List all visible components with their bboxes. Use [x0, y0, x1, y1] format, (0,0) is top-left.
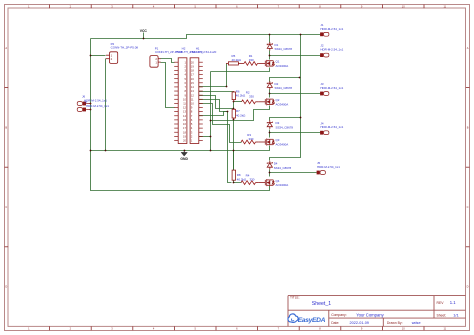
svg-text:TITLE:: TITLE: — [290, 296, 300, 300]
svg-text:40.2kΩ: 40.2kΩ — [236, 113, 246, 117]
svg-text:AO3400A: AO3400A — [276, 143, 289, 147]
svg-text:HDR-M-2.54_1x1: HDR-M-2.54_1x1 — [320, 125, 343, 129]
connector J7 (HDR-M-2.54_1x1) — [77, 108, 82, 112]
svg-text:40.2kΩ: 40.2kΩ — [236, 94, 246, 98]
wire D4 bottom to Q4 drain — [269, 170, 271, 177]
svg-text:D: D — [5, 285, 7, 289]
wire VCC right vertical — [270, 35, 301, 161]
svg-text:R7: R7 — [236, 109, 240, 113]
wire left rail + bottom rail — [91, 39, 270, 191]
connector P2 — [106, 54, 110, 56]
connector H1 (HDR-TH 1x20) — [190, 58, 199, 144]
junction ch2 feed jog — [299, 77, 301, 79]
svg-text:A: A — [5, 46, 7, 50]
junction R7 bottom — [233, 119, 235, 121]
wire P2 pin2 down — [105, 59, 107, 151]
wire to J4 — [270, 132, 321, 134]
svg-text:A: A — [467, 46, 469, 50]
diode D2 — [267, 81, 272, 90]
svg-text:40.2kΩ: 40.2kΩ — [237, 177, 247, 181]
wire ch3 feed jog — [270, 118, 301, 121]
pin numbers H2 (1-20) / H1 (20-1) — [183, 60, 194, 142]
svg-text:2022-01-09: 2022-01-09 — [350, 321, 369, 325]
wire D1 top — [269, 35, 271, 43]
wire P2 pin1 — [91, 55, 106, 57]
diode D4 — [267, 161, 272, 170]
svg-text:HDR-M-2.54_1x1: HDR-M-2.54_1x1 — [320, 86, 343, 90]
junction R6-R2-R7 node — [233, 101, 235, 103]
svg-text:GND: GND — [180, 157, 188, 161]
wire H1 pin1 — [199, 136, 211, 138]
connector J4 (HDR-M-2.54_1x1) — [320, 131, 323, 135]
wire D3 bottom to Q3 drain — [269, 130, 271, 138]
transistor Q3 (NMOS AO3400A) — [259, 139, 275, 146]
svg-text:EasyEDA: EasyEDA — [298, 317, 326, 324]
wire to J5 — [270, 172, 317, 174]
node drain Q1 / J2 — [269, 55, 271, 57]
junction P2 pin2 / mid rail — [105, 150, 107, 152]
resistor R5 body — [226, 62, 228, 64]
svg-text:REV: REV — [437, 301, 445, 305]
wire P1 pin2 to H2 pin1 — [161, 59, 175, 63]
svg-text:AO3400A: AO3400A — [276, 64, 289, 68]
wire mid GND rail — [91, 146, 270, 151]
wire rail to R8 — [233, 151, 235, 171]
junction H1 pin7 / R5 feed — [226, 86, 228, 88]
wire R6-R7 link — [233, 102, 235, 110]
GND symbol — [183, 150, 185, 153]
wire H1 pin14 — [199, 112, 228, 116]
wire R8 bottom to R4 — [234, 181, 242, 183]
pin stubs H2 and H1 — [174, 62, 203, 140]
svg-text:HDR-TH_2.54-1x20: HDR-TH_2.54-1x20 — [190, 50, 216, 54]
transistor Q4 (NMOS AO3400A) — [259, 179, 275, 186]
junction J6 / left rail — [90, 103, 92, 105]
svg-text:wdse: wdse — [412, 321, 421, 325]
wire ch2 feed jog — [270, 78, 300, 82]
node drain Q3 / J4 — [269, 132, 271, 134]
svg-text:B: B — [5, 125, 7, 129]
svg-text:Sheet:: Sheet: — [437, 314, 447, 318]
wire D2 bottom to Q2 drain — [269, 90, 271, 98]
wire R7 bottom to R8 top — [233, 120, 235, 171]
svg-text:Sheet_1: Sheet_1 — [312, 301, 331, 307]
wire VCC rail — [91, 35, 321, 39]
svg-text:40.2kΩ: 40.2kΩ — [232, 58, 242, 62]
svg-text:AO3400A: AO3400A — [276, 183, 289, 187]
title block — [288, 295, 466, 297]
wire H1 pin10 — [199, 100, 228, 112]
wire H1 pin7 — [199, 86, 227, 88]
resistor R6 body — [232, 92, 235, 100]
svg-text:VCC: VCC — [140, 29, 148, 33]
node drain Q4 / J5 — [269, 172, 271, 174]
svg-text:Company:: Company: — [331, 313, 347, 317]
resistor R7 body — [232, 109, 235, 118]
connector J2 (HDR-M-2.54_1x1) — [320, 53, 323, 57]
svg-text:Date:: Date: — [331, 321, 339, 325]
junction R8 bottom / R4 — [233, 182, 235, 184]
connector J6 (HDR-M-2.54_1x1) — [77, 102, 82, 106]
svg-text:B: B — [467, 125, 469, 129]
svg-text:C: C — [5, 205, 7, 209]
junction P2 pin1 / left rail — [90, 55, 92, 57]
resistor R1 zigzag — [244, 62, 258, 66]
junction source vertical / mid rail — [210, 150, 212, 152]
svg-text:HDR-M-2.54_1x1: HDR-M-2.54_1x1 — [84, 98, 107, 102]
junction left rail / mid rail — [90, 150, 92, 152]
transistor Q1 (NMOS AO3400A) — [259, 60, 275, 67]
svg-text:330: 330 — [249, 58, 254, 62]
resistor R3 zigzag — [241, 140, 256, 144]
resistor R2 zigzag — [242, 100, 256, 104]
junction ch4 feed node — [227, 111, 229, 113]
svg-text:HDR-M-2.54_1x1: HDR-M-2.54_1x1 — [320, 48, 343, 52]
junction GND tap — [184, 150, 186, 152]
svg-text:SS34_C8678: SS34_C8678 — [275, 86, 293, 90]
svg-text:Drawn By:: Drawn By: — [387, 321, 403, 325]
svg-text:AO3400A: AO3400A — [276, 102, 289, 106]
connector H2 (HDR-TH 1x20) — [178, 58, 187, 144]
wire R2 left — [234, 101, 242, 103]
junction R8 top / mid rail — [233, 150, 235, 152]
wire Q1 source — [211, 68, 270, 72]
junction ch3 feed jog — [300, 117, 302, 119]
resistor R4 zigzag — [241, 181, 256, 185]
resistor R8 body — [232, 170, 235, 180]
wire to J3 — [270, 93, 321, 95]
junction D1 top / top rail — [269, 34, 271, 36]
svg-text:SS34_C8678: SS34_C8678 — [275, 47, 293, 51]
junction top rail / right vertical — [300, 34, 302, 36]
connector J5 (HDR-M-2.54_1x1) — [317, 171, 320, 175]
wire H1 pin9 to R7 — [199, 96, 234, 109]
wire VCC stub — [143, 33, 145, 39]
wire D1 bottom to Q1 drain — [269, 51, 271, 60]
junction VCC stub / top rail — [143, 38, 145, 40]
svg-text:CONN-TH_2P-P5.08: CONN-TH_2P-P5.08 — [111, 46, 139, 50]
diode D3 — [267, 120, 272, 129]
junction R7 top — [233, 108, 235, 110]
wire H1 pin11 to R3 — [199, 104, 242, 143]
connector P1 — [158, 58, 161, 60]
junction J7 / left rail — [90, 109, 92, 111]
svg-text:330: 330 — [250, 178, 255, 182]
svg-text:1/1: 1/1 — [453, 313, 459, 318]
connector J3 (HDR-M-2.54_1x1) — [320, 92, 323, 96]
svg-text:HDR-M-2.54_1x1: HDR-M-2.54_1x1 — [86, 104, 109, 108]
wire source collection vertical — [210, 72, 212, 151]
svg-text:Your Company: Your Company — [356, 312, 384, 317]
wire Q2 source — [211, 106, 270, 121]
svg-text:SS34_C8678: SS34_C8678 — [276, 125, 294, 129]
junction H1 pin19 / source vertical — [210, 136, 212, 138]
EasyEDA logo — [288, 314, 298, 323]
svg-text:D: D — [467, 285, 469, 289]
svg-text:1.1: 1.1 — [450, 300, 456, 305]
junction Q2 source / source vertical — [210, 120, 212, 122]
svg-text:330: 330 — [249, 137, 254, 141]
svg-text:HDR-M-2.54_1x1: HDR-M-2.54_1x1 — [320, 27, 343, 31]
wire to J2 — [270, 55, 321, 57]
wire up to R5 — [226, 64, 228, 87]
svg-text:SS34_C8678: SS34_C8678 — [274, 166, 292, 170]
svg-text:C: C — [467, 205, 469, 209]
svg-text:330: 330 — [249, 94, 254, 98]
connector J1 (HDR-M-2.54_1x1) — [320, 32, 323, 36]
wire H1 pin8 to R6 — [199, 91, 234, 93]
node drain Q2 / J3 — [269, 93, 271, 95]
diode D1 — [267, 42, 272, 51]
transistor Q2 (NMOS AO3400A) — [259, 98, 275, 105]
wire ch4 gate feed — [228, 112, 232, 183]
svg-text:HDR-M-2.54_1x1: HDR-M-2.54_1x1 — [317, 165, 340, 169]
wire P1 pin1 to H2 pin12 — [161, 63, 175, 108]
